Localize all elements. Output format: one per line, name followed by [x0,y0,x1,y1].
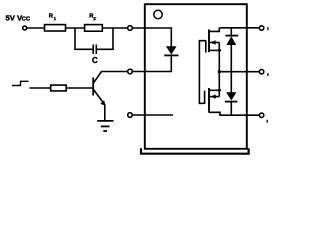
mosfet Q2 body lead [209,42,219,44]
input step signal [12,81,29,85]
wire into package to LED anode [132,27,172,29]
terminal pin2 left [128,69,133,74]
mosfet Q2 channel bar [208,29,210,52]
mosfet Q3 gate bar [204,91,206,104]
mosfet Q3 body arrow [210,94,215,98]
body diode D3 bottom wire [230,102,232,116]
mosfet Q2 gate bar [205,40,207,52]
body diode D2 triangle (pointing up) [226,36,236,45]
wire left branch down [74,27,76,50]
body diode D2 bottom wire [230,45,232,72]
svg-text:C: C [92,56,98,65]
gate interconnect wire [199,41,205,104]
wire drain2 to output pin4 [219,114,259,116]
tick label middle [267,73,269,76]
ground [97,121,113,131]
wire emitter down [104,105,106,121]
junction dot Q2 source [218,49,221,52]
LED D1 triangle [166,46,177,54]
terminal pin3 left [128,113,133,118]
transistor Q1 base bar [92,78,94,96]
transistor Q1 emitter [94,90,104,103]
svg-text:1: 1 [54,16,57,21]
wire R1 to RF [66,27,85,29]
body diode D3 top wire [230,72,232,93]
junction dot Q3 source [218,89,221,92]
junction dot common source / pin4 wire [218,70,221,73]
wire 5V to R1 [27,27,45,29]
wire RF to terminal [102,27,128,29]
wire common source to output pin5 [219,71,259,73]
wire drain1 to output pin6 [219,27,259,29]
wire R2 to base [66,87,93,89]
wire cap right [97,48,114,50]
tick label bottom [266,120,268,123]
pin 1 indicator [154,10,162,18]
mosfet Q2 drain lead [209,28,219,32]
output terminal middle [259,70,263,74]
label 5V Vcc [6,14,31,23]
capacitor C plates [92,45,94,55]
mosfet Q3 source lead [209,89,221,91]
terminal pin1 left [128,26,133,31]
LED D1 anode wire [170,27,172,46]
body diode D3 anode bar [225,101,238,103]
svg-text:5V V: 5V V [6,14,24,23]
LED D1 cathode bar [164,54,178,56]
wire input to base resistor [30,87,51,89]
tick label top [267,27,269,30]
output terminal bottom [259,113,263,117]
mosfet Q3 channel bar [208,88,210,113]
mounting bracket under package [141,148,249,154]
terminal 5V input [23,26,27,30]
common source join wire [218,43,220,97]
resistor R2 (base) [51,85,66,91]
LED D1 cathode wire [170,55,172,72]
svg-text:F: F [94,17,97,22]
mosfet Q3 drain lead [209,112,220,115]
label R1 [49,14,57,22]
mosfet Q2 body arrow [210,40,215,44]
wire right branch down [112,27,114,50]
wire into package to LED cathode [132,71,172,73]
transistor Q1 collector [94,72,102,84]
body diode D2 top wire [230,28,232,36]
mosfet Q2 source lead [209,49,221,51]
wire cap left [74,48,92,50]
svg-text:CC: CC [22,17,31,23]
label RF [89,14,96,22]
wire pin3 stub into package [132,114,173,116]
resistor RF [85,25,103,32]
label C [92,56,98,65]
body diode D2 cathode bar [225,35,238,37]
package box U1 [145,4,247,149]
mosfet Q3 body lead [209,96,219,98]
resistor R1 [45,25,66,31]
emitter arrowhead [100,100,105,106]
body diode D3 triangle (pointing down) [226,92,236,100]
output terminal top [259,26,263,30]
